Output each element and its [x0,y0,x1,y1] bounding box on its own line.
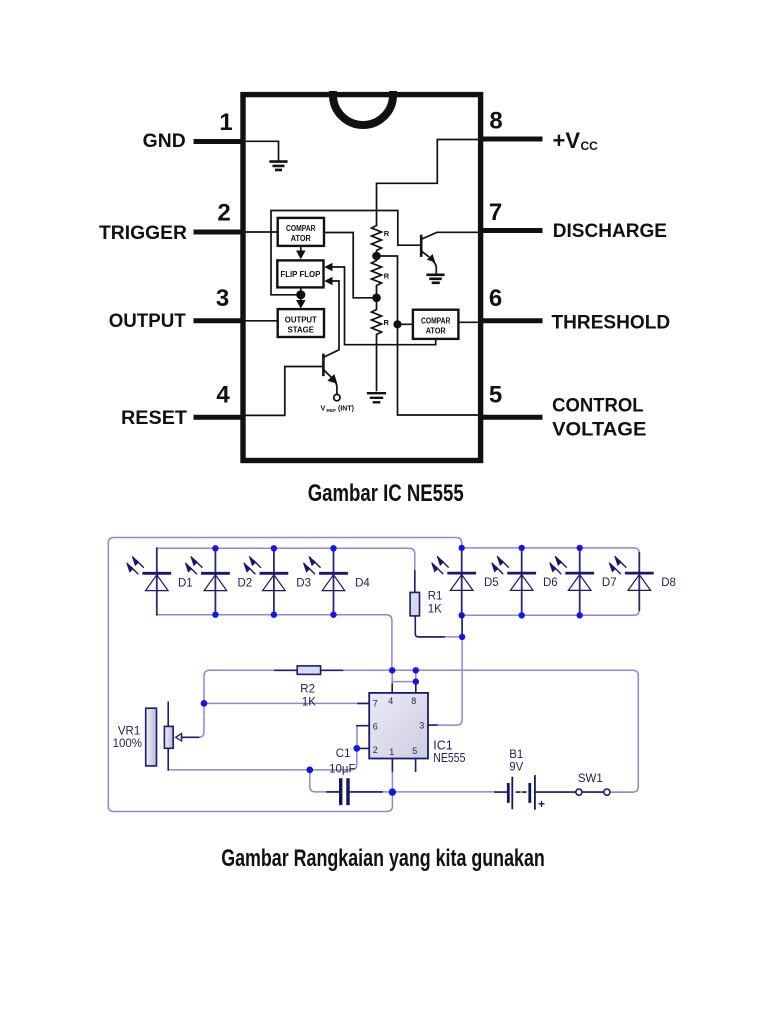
svg-text:VOLTAGE: VOLTAGE [552,420,646,441]
LED D5 [461,548,463,615]
LED D6 [521,548,523,615]
wire: Vcc rail through R2 to SW1 [181,670,209,737]
svg-text:4: 4 [216,382,230,409]
output stage U3 [278,309,324,337]
svg-text:STAGE: STAGE [288,326,315,335]
switch SW1 [576,789,582,795]
svg-text:1: 1 [219,109,232,136]
wire: flip flop output loop to discharge base [271,211,420,295]
svg-text:VR1: VR1 [118,726,140,738]
wire: left LED anode rail to R1 [157,548,415,573]
wire: C1 right to battery [349,791,495,793]
svg-text:3: 3 [216,285,229,312]
svg-text:R2: R2 [300,684,315,696]
resistor R2 [297,666,320,675]
capacitor C1 plates [341,780,348,804]
pin 2 stub [196,230,241,235]
IC pin stubs (dark) [357,684,437,771]
battery B1 [508,784,530,801]
svg-text:4: 4 [388,696,393,706]
svg-text:D5: D5 [484,577,499,589]
wire: output stage to pin 3 [246,320,278,322]
pin 4 stub [196,415,241,420]
junction dots on anode/cathode rails [212,545,583,619]
wire: outer loop (battery negative to D5-D8 anode rail) [108,538,461,812]
potentiometer VR1 track bar [146,708,157,766]
transistor Q1 emitter with arrow [324,371,331,378]
wire: left LED cathode rail [157,614,387,616]
wire: left LED cathode rail down to Vcc rail [386,615,392,671]
svg-text:CC: CC [581,139,599,153]
node: Vcc rail / pin4 [389,667,395,673]
wire: right LED anode rail [462,548,640,560]
svg-text:TRIGGER: TRIGGER [99,223,187,244]
svg-text:COMPAR: COMPAR [286,224,316,233]
LED D8 [638,553,640,610]
arrow into flip flop (reset) [324,277,332,286]
node: 2/3 Vcc junction [372,252,381,261]
svg-text:R: R [384,272,390,281]
node: pin1 / C1 / battery junction [389,788,396,795]
transistor Q1 (reset) base bar [322,355,325,375]
wire: right LED cathode rail [462,604,640,615]
wire: junction to threshold comparator [398,323,413,325]
LED D2 [214,548,216,614]
node: pin2/pin6 junction [353,745,360,752]
svg-text:D2: D2 [238,578,253,590]
wire: node to C1 left plate [310,770,340,792]
svg-text:6: 6 [373,721,378,731]
arrow into flip flop (set) [324,263,332,272]
wire: SW1 right to corner [610,791,632,793]
svg-text:D1: D1 [178,578,193,590]
svg-text:CONTROL: CONTROL [552,396,644,417]
node: pin8 bridge [413,678,419,684]
svg-text:5: 5 [489,382,502,409]
pin 3 stub [196,318,241,323]
transistor Q2 emitter with arrow [421,251,428,257]
resistor R2 leads [275,669,343,671]
svg-text:3: 3 [419,721,424,731]
terminal circle Vref [334,394,340,400]
svg-text:OUTPUT: OUTPUT [285,316,317,325]
svg-text:1K: 1K [428,603,442,615]
svg-text:COMPAR: COMPAR [421,317,451,326]
svg-text:ATOR: ATOR [291,234,311,243]
pin 5 stub [481,415,540,420]
wire: pin 3 to D5 cathode rail [437,615,462,725]
svg-text:THRESHOLD: THRESHOLD [552,312,671,333]
svg-text:100%: 100% [113,738,142,750]
svg-text:ATOR: ATOR [426,327,446,336]
svg-text:6: 6 [489,285,502,312]
ground (divider bottom) [368,393,385,402]
wire: pin2/6 node down-left to VR1 bottom [168,748,357,770]
wire: pin4-pin8 bridge [392,681,416,683]
svg-text:D3: D3 [296,578,311,590]
svg-text:REF: REF [327,408,337,414]
wire: threshold comparator output to flip flop set input [332,267,436,345]
node: R1/pin3 junction [459,634,465,640]
svg-text:5: 5 [412,746,417,756]
svg-text:D4: D4 [355,578,370,590]
svg-text:+: + [538,797,545,811]
LED D3 [273,548,275,614]
svg-text:OUTPUT: OUTPUT [109,311,186,332]
potentiometer VR1 wiper arrow [176,734,182,741]
svg-text:Gambar Rangkaian yang kita gun: Gambar Rangkaian yang kita gunakan [221,845,545,872]
ground (internal, pin 1) [271,162,287,170]
node: control/threshold junction [393,320,401,328]
wire: pin 4 [391,670,393,693]
svg-text:(INT): (INT) [338,406,354,413]
package notch [333,95,393,125]
svg-text:1: 1 [389,747,394,757]
wire: pin 6 down to pin 2 [356,726,358,749]
comparator U4 (threshold) [413,310,459,339]
wire: pin3 riser dark segment [461,615,463,637]
svg-text:GND: GND [143,131,186,152]
node: flip flop output [296,290,305,299]
pin 8 stub [481,137,540,142]
svg-text:D7: D7 [602,577,617,589]
svg-text:SW1: SW1 [578,773,603,785]
pin 6 stub [481,318,540,323]
pin 1 stub [196,139,241,144]
pin 7 stub [481,228,540,233]
svg-text:10µF: 10µF [329,764,355,776]
svg-text:V: V [321,404,326,413]
IC package body [243,95,481,461]
svg-text:+V: +V [553,128,581,153]
resistor R1 [410,592,419,616]
svg-text:Gambar IC NE555: Gambar IC NE555 [308,480,464,507]
LED D4 [333,548,335,614]
svg-text:D6: D6 [543,577,558,589]
resistor R (bottom of divider) [372,298,382,391]
svg-text:9V: 9V [509,761,523,773]
svg-text:B1: B1 [509,749,523,761]
resistor R1 leads [415,571,444,637]
svg-text:D8: D8 [661,577,676,589]
wire: pin 8 to divider top [377,140,479,226]
svg-text:FLIP FLOP: FLIP FLOP [280,270,321,279]
svg-text:C1: C1 [336,748,351,760]
svg-text:R: R [384,318,390,327]
wire: gnd pin to internal ground [246,141,279,160]
svg-text:DISCHARGE: DISCHARGE [553,221,667,242]
LED D1 [156,548,158,614]
node: 1/3 Vcc junction [372,294,381,303]
transistor Q2 collector to pin 7 [421,232,478,239]
IC pin numbers [373,696,424,757]
potentiometer VR1 slider box [164,726,173,748]
svg-text:2: 2 [217,200,230,227]
wire: threshold comparator to pin 6 [458,321,478,323]
wire: reset transistor collector to flip flop reset input [325,281,339,357]
svg-text:7: 7 [489,199,502,226]
wire: pin 8 [415,670,417,693]
IC1 chip body [369,693,428,759]
capacitor C1 lead stubs [327,791,382,793]
wire: R1 bottom to pin3 node [420,636,462,638]
arrow: comparator to flip flop [300,246,302,251]
node: VR1 bottom / C1 junction [306,767,313,774]
wire: 2/3 node to control voltage pin 5 [381,256,479,415]
node: VR1 wiper / pin7 / R2 junction [201,700,208,707]
wire: 1/3 node to trigger comparator [324,233,377,298]
svg-text:R: R [384,229,390,238]
transistor Q2 (discharge) base bar [420,236,423,256]
resistor R (top of divider) [372,226,382,257]
wire: pin 7 to VR1 node [204,702,369,704]
svg-text:NE555: NE555 [433,751,465,765]
flip flop U2 [277,260,323,287]
ground (discharge emitter) [428,275,444,283]
svg-text:R1: R1 [428,590,443,602]
LED D7 [579,548,581,615]
comparator U1 (trigger) [278,218,324,246]
svg-text:8: 8 [489,108,502,135]
potentiometer VR1 slider line [167,702,169,770]
svg-text:RESET: RESET [121,408,187,429]
svg-text:2: 2 [373,745,378,755]
node: Vcc rail / pin8 [413,667,419,673]
svg-text:8: 8 [411,696,416,706]
wire: pin 1 down to ground rail [391,759,393,793]
wire: trigger pin 2 to comparator [246,231,278,233]
resistor R (middle of divider) [372,256,382,298]
svg-text:1K: 1K [302,697,316,709]
svg-text:7: 7 [373,699,378,709]
wire: reset pin 4 to transistor base [246,367,322,416]
arrow: flip flop to output stage [300,295,302,301]
